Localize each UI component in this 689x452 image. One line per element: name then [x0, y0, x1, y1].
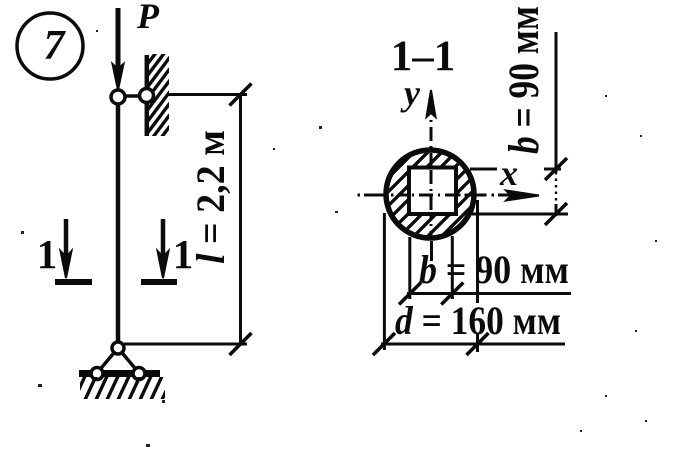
- svg-text:P: P: [136, 0, 160, 36]
- svg-text:1–1: 1–1: [391, 33, 456, 80]
- svg-text:x: x: [499, 153, 518, 193]
- svg-text:b = 90 мм: b = 90 мм: [419, 247, 569, 292]
- svg-text:d = 160 мм: d = 160 мм: [395, 298, 561, 343]
- svg-text:b = 90 мм: b = 90 мм: [501, 6, 548, 154]
- svg-text:7: 7: [44, 23, 67, 69]
- svg-text:y: y: [400, 73, 421, 113]
- svg-text:l = 2,2 м: l = 2,2 м: [188, 130, 233, 264]
- svg-text:1: 1: [37, 231, 58, 277]
